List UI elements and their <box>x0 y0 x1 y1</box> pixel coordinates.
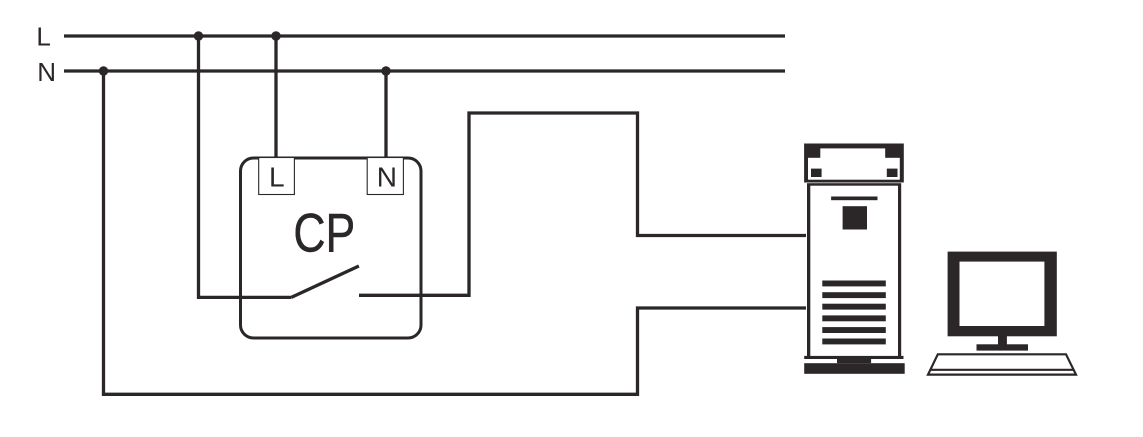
svg-text:N: N <box>37 57 56 87</box>
svg-text:L: L <box>269 161 285 192</box>
svg-text:N: N <box>377 161 397 192</box>
svg-text:CP: CP <box>293 202 355 263</box>
svg-text:L: L <box>36 21 50 51</box>
